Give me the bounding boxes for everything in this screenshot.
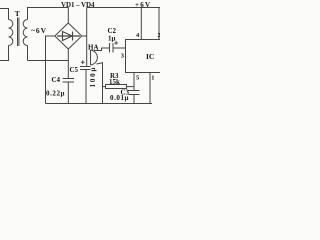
wire bridge bottom vertex down to C4 <box>67 49 69 79</box>
ground rail <box>46 103 153 105</box>
svg-text:5: 5 <box>136 75 140 82</box>
wire speaker top lead to C2 <box>94 48 110 51</box>
svg-text:0.22μ: 0.22μ <box>46 90 65 98</box>
wire C3 to ground <box>133 95 135 104</box>
svg-text:VD1 – VD4: VD1 – VD4 <box>61 1 95 9</box>
svg-text:C4: C4 <box>52 76 61 84</box>
wire IC pin 1 to ground <box>149 73 151 104</box>
wire C5 to ground <box>85 70 87 104</box>
C2 plus sign <box>114 41 118 45</box>
+6V rail <box>87 7 160 9</box>
wire IC top-right pin to +6V rail <box>158 8 160 40</box>
capacitor C4 0.22u plates <box>63 79 75 83</box>
capacitor C2 1u plates <box>110 43 114 53</box>
svg-text:3: 3 <box>121 53 125 60</box>
C5 plus sign <box>81 60 85 64</box>
svg-text:HA: HA <box>88 44 99 52</box>
resistor R3 15k body <box>106 85 127 89</box>
transformer T secondary winding <box>23 20 27 46</box>
svg-text:C5: C5 <box>70 66 79 74</box>
transformer core <box>18 18 19 47</box>
svg-text:~6V: ~6V <box>31 26 47 35</box>
wire bridge left vertex down to ground <box>46 36 55 104</box>
capacitor C3 0.01u plates <box>129 91 140 95</box>
svg-text:100μ: 100μ <box>89 67 97 87</box>
wire bridge right vertex stub <box>82 35 87 37</box>
wire AC input bottom from primary <box>0 46 9 61</box>
wire R3 left lead <box>103 86 106 88</box>
wire R3 right lead to pin5 node <box>127 86 135 88</box>
wire secondary top lead and top rail to bridge <box>28 8 69 24</box>
wire AC input top to primary <box>0 9 9 20</box>
svg-text:4: 4 <box>136 32 140 39</box>
bridge rectifier VD1-VD4 diamond <box>55 23 82 49</box>
wire bottom AC node <box>28 60 69 62</box>
wire speaker bottom lead down to ground <box>97 63 103 104</box>
wire C2 to IC pin 3 on left edge <box>113 47 126 49</box>
svg-text:+6V: +6V <box>135 1 150 9</box>
svg-text:1: 1 <box>151 75 154 82</box>
capacitor C5 100u plates <box>80 67 91 70</box>
wire IC pin 4 to +6V rail <box>140 8 142 40</box>
svg-text:15k: 15k <box>109 78 120 86</box>
wire secondary bottom lead <box>27 46 29 61</box>
wire IC pin 5 down to R3/C3 node <box>133 73 135 91</box>
speaker HA symbol <box>91 50 98 65</box>
IC box <box>126 40 161 73</box>
transformer T primary winding <box>9 20 13 46</box>
wire C4 to ground <box>67 82 69 104</box>
svg-text:2: 2 <box>158 32 160 39</box>
svg-text:1μ: 1μ <box>108 35 116 43</box>
wire +6V riser down to C5 <box>86 8 88 67</box>
svg-text:T: T <box>15 9 20 18</box>
diode symbol inside bridge <box>57 32 80 41</box>
svg-text:0.01μ: 0.01μ <box>110 94 129 102</box>
svg-text:IC: IC <box>146 52 154 61</box>
